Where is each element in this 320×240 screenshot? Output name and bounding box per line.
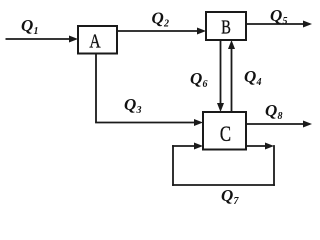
wire loop left vertical — [172, 145, 174, 186]
svg-text:3: 3 — [136, 105, 142, 116]
svg-text:4: 4 — [256, 77, 262, 88]
block A — [78, 26, 117, 54]
svg-text:6: 6 — [203, 79, 208, 90]
block B — [206, 12, 246, 40]
arrowhead Q3 — [194, 119, 203, 126]
arrowhead loop return — [194, 143, 203, 150]
wire Q3 arrow into C — [95, 122, 195, 124]
wire from A down — [95, 54, 97, 123]
svg-text:C: C — [220, 123, 231, 147]
arrowhead loop out — [265, 143, 274, 150]
arrowhead Q5 — [303, 21, 312, 28]
svg-text:8: 8 — [278, 111, 283, 122]
svg-text:Q: Q — [21, 16, 33, 35]
wire loop bottom — [172, 184, 275, 186]
svg-text:B: B — [221, 15, 231, 38]
svg-text:Q: Q — [221, 186, 233, 205]
wire Q5 arrow out of B — [246, 23, 304, 25]
arrowhead Q8 — [303, 121, 312, 128]
svg-text:5: 5 — [283, 16, 288, 27]
svg-text:Q: Q — [265, 101, 277, 120]
svg-text:2: 2 — [163, 19, 169, 30]
svg-text:Q: Q — [152, 9, 164, 28]
arrowhead Q6 — [217, 103, 224, 112]
svg-text:Q: Q — [244, 67, 256, 86]
block C — [203, 112, 246, 150]
svg-text:Q: Q — [124, 95, 136, 114]
wire Q2 arrow A to B — [117, 30, 199, 32]
arrowhead Q1 — [69, 36, 78, 43]
wire Q1 arrow into A — [6, 38, 71, 40]
wire loop out of C right — [246, 145, 266, 147]
wire Q6 arrow B down to C — [220, 40, 222, 105]
arrowhead Q4 — [228, 40, 235, 49]
svg-text:A: A — [89, 30, 100, 52]
svg-text:Q: Q — [270, 6, 282, 25]
svg-text:1: 1 — [34, 26, 39, 37]
wire loop right vertical — [273, 145, 275, 186]
arrowhead Q2 — [197, 28, 206, 35]
wire loop return into C — [172, 145, 195, 147]
wire Q4 arrow C up to B — [231, 48, 233, 113]
wire Q8 arrow out of C — [246, 123, 304, 125]
svg-text:Q: Q — [190, 69, 202, 88]
